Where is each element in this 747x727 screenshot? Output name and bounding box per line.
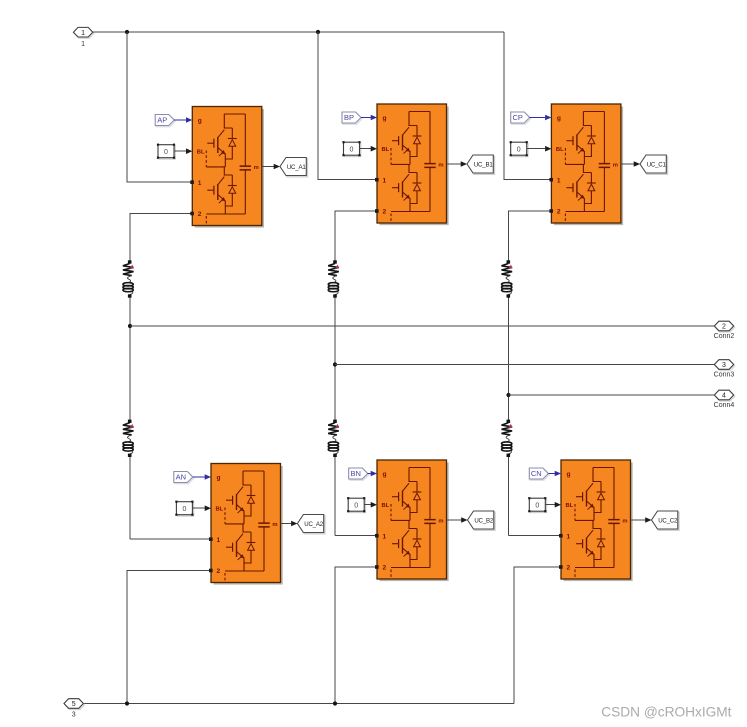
arrowhead into C2 BL xyxy=(555,502,561,508)
From tag BP (gate signal B1) xyxy=(342,112,362,124)
wire top DC bus xyxy=(93,31,504,33)
wire A leg lower vertical xyxy=(129,456,131,539)
svg-text:0: 0 xyxy=(517,146,521,153)
arrowhead into UC_A2 xyxy=(291,521,297,527)
wire phase C output to Conn4 xyxy=(509,394,715,396)
wire 0 to B1 BL xyxy=(360,148,371,150)
half-bridge submodule block A1 xyxy=(190,107,263,227)
From tag AN (gate signal A2) xyxy=(174,472,194,484)
svg-text:g: g xyxy=(217,475,221,482)
arrowhead into A1 BL xyxy=(186,148,192,154)
arrowhead into A2 BL xyxy=(205,505,211,511)
svg-text:1: 1 xyxy=(81,41,85,48)
svg-text:m: m xyxy=(622,519,627,525)
svg-text:3: 3 xyxy=(722,362,726,369)
Goto tag UC_B1 (measurement B1) xyxy=(467,155,495,174)
connection port output Conn2 xyxy=(714,321,735,340)
svg-text:1: 1 xyxy=(383,533,387,540)
svg-text:2: 2 xyxy=(217,568,221,575)
wire B2 m to UC_B2 xyxy=(447,519,462,521)
connection port input 1 (top-left) xyxy=(73,27,93,47)
junction phase C output node xyxy=(506,393,510,397)
wire CP signal to C1 g (navy) xyxy=(530,117,546,119)
constant 0 (BL input B1) xyxy=(342,141,360,156)
half-bridge submodule block B1 xyxy=(375,104,448,224)
wire C2 m to UC_C2 xyxy=(631,519,646,521)
half-bridge submodule block C2 xyxy=(559,460,632,580)
junction top bus / phase A xyxy=(125,30,129,34)
wire to A2 port 1 xyxy=(130,538,211,540)
svg-text:m: m xyxy=(438,519,443,525)
wire top bus down to C1 port 1 xyxy=(504,32,551,180)
junction top bus / phase B xyxy=(316,30,320,34)
arrowhead into B1 BL xyxy=(371,146,377,152)
half-bridge submodule block B2 xyxy=(375,460,448,580)
svg-text:m: m xyxy=(438,163,443,169)
wire phase B output to Conn3 xyxy=(335,364,714,366)
arrowhead into A1 g xyxy=(186,117,192,123)
svg-text:UC_B2: UC_B2 xyxy=(474,518,493,525)
constant 0 (BL input B2) xyxy=(347,497,365,512)
junction bottom bus / phase B xyxy=(333,701,337,705)
wire A2 m to UC_A2 xyxy=(281,523,292,525)
svg-text:UC_C1: UC_C1 xyxy=(647,162,667,169)
series RL branch phase A upper arm xyxy=(123,260,134,297)
wire BN signal to B2 g (navy) xyxy=(368,473,371,475)
svg-text:UC_C2: UC_C2 xyxy=(658,518,678,525)
svg-text:CSDN @cROHxIGMt: CSDN @cROHxIGMt xyxy=(601,705,731,720)
svg-text:2: 2 xyxy=(383,209,387,216)
arrowhead into UC_B2 xyxy=(461,517,467,523)
svg-text:0: 0 xyxy=(164,149,168,156)
wire 0 to A2 BL xyxy=(192,507,204,509)
wire 0 to C2 BL xyxy=(545,504,555,506)
wire phase A output to Conn2 xyxy=(130,325,714,327)
svg-text:BL: BL xyxy=(382,503,390,509)
svg-text:0: 0 xyxy=(182,506,186,513)
Goto tag UC_C2 (measurement C2) xyxy=(652,511,680,530)
svg-text:1: 1 xyxy=(217,537,221,544)
junction bottom bus / phase A xyxy=(125,701,129,705)
svg-text:UC_B1: UC_B1 xyxy=(474,162,493,169)
svg-text:BL: BL xyxy=(566,503,574,509)
half-bridge submodule block C1 xyxy=(549,104,622,224)
svg-text:BP: BP xyxy=(344,113,354,122)
svg-text:0: 0 xyxy=(535,502,539,509)
arrowhead into C2 g xyxy=(555,471,561,477)
svg-text:1: 1 xyxy=(557,177,561,184)
svg-text:g: g xyxy=(557,115,561,122)
half-bridge submodule block A2 xyxy=(209,464,282,584)
arrowhead into B2 g xyxy=(371,471,377,477)
svg-text:CN: CN xyxy=(531,469,542,478)
connection port output Conn4 xyxy=(714,390,735,409)
svg-text:AP: AP xyxy=(157,116,167,125)
svg-text:CP: CP xyxy=(512,113,522,122)
wire A1 port 2 to upper arm inductor xyxy=(130,214,192,263)
arrowhead into UC_A1 xyxy=(274,164,280,170)
svg-text:BL: BL xyxy=(197,150,205,156)
wire to B2 port 1 xyxy=(335,535,377,537)
svg-text:3: 3 xyxy=(72,711,76,718)
svg-text:2: 2 xyxy=(383,565,387,572)
arrowhead into C1 BL xyxy=(545,146,551,152)
series RL branch phase A lower arm xyxy=(123,420,134,457)
series RL branch phase C upper arm xyxy=(502,260,513,297)
Goto tag UC_C1 (measurement C1) xyxy=(640,155,668,174)
series RL branch phase B upper arm xyxy=(328,260,339,297)
wire AN signal to A2 g (navy) xyxy=(193,476,205,478)
wire AP signal to A1 g (navy) xyxy=(174,119,186,121)
svg-text:UC_A2: UC_A2 xyxy=(304,521,323,528)
svg-text:Conn2: Conn2 xyxy=(714,333,735,340)
arrowhead into UC_C1 xyxy=(634,161,640,167)
wire to C2 port 1 xyxy=(509,535,562,537)
svg-text:BN: BN xyxy=(350,469,360,478)
svg-text:5: 5 xyxy=(72,701,76,708)
svg-text:m: m xyxy=(254,165,259,171)
series RL branch phase C lower arm xyxy=(502,420,513,457)
svg-text:BL: BL xyxy=(382,147,390,153)
arrowhead into UC_C2 xyxy=(645,517,651,523)
wire 0 to A1 BL xyxy=(174,150,186,152)
svg-text:0: 0 xyxy=(350,146,354,153)
arrowhead into B2 BL xyxy=(371,502,377,508)
svg-text:2: 2 xyxy=(567,565,571,572)
wire C1 m to UC_C1 xyxy=(621,163,634,165)
svg-text:2: 2 xyxy=(722,324,726,331)
constant 0 (BL input A1) xyxy=(157,144,175,159)
Goto tag UC_A2 (measurement A2) xyxy=(297,515,325,534)
wire A leg mid vertical xyxy=(129,296,131,421)
series RL branch phase B lower arm xyxy=(328,420,339,457)
junction phase B output node xyxy=(333,362,337,366)
From tag BN (gate signal B2) xyxy=(349,468,369,480)
From tag AP (gate signal A1) xyxy=(155,115,175,127)
svg-text:1: 1 xyxy=(383,177,387,184)
wire A2 port 2 down to bottom bus xyxy=(127,571,211,704)
wire C leg mid vertical xyxy=(508,296,510,421)
wire CN signal to C2 g (navy) xyxy=(548,473,555,475)
From tag CP (gate signal C1) xyxy=(511,112,531,124)
wire C2 port 2 down to bottom bus xyxy=(514,567,561,704)
wire C1 port 2 to upper arm inductor xyxy=(509,211,552,262)
svg-text:2: 2 xyxy=(557,209,561,216)
wire 0 to C1 BL xyxy=(527,148,546,150)
svg-text:Conn3: Conn3 xyxy=(714,372,735,379)
wire B1 m to UC_B1 xyxy=(447,163,461,165)
junction phase A output node xyxy=(128,324,132,328)
Goto tag UC_B2 (measurement B2) xyxy=(468,511,496,530)
From tag CN (gate signal C2) xyxy=(529,468,549,480)
wire B leg lower vertical xyxy=(334,456,336,536)
arrowhead into UC_B1 xyxy=(461,161,467,167)
Goto tag UC_A1 (measurement A1) xyxy=(280,158,308,177)
svg-text:g: g xyxy=(383,115,387,122)
wire A1 m to UC_A1 xyxy=(262,166,274,168)
wire B leg mid vertical xyxy=(334,296,336,421)
svg-text:AN: AN xyxy=(176,473,186,482)
svg-text:1: 1 xyxy=(198,180,202,187)
svg-text:g: g xyxy=(198,118,202,125)
arrowhead into C1 g xyxy=(545,115,551,121)
wire top bus down to B1 port 1 xyxy=(318,32,377,180)
svg-text:BL: BL xyxy=(216,507,224,513)
connection port output Conn3 xyxy=(714,360,735,379)
svg-text:g: g xyxy=(567,471,571,478)
svg-text:m: m xyxy=(613,163,618,169)
wire C leg lower vertical xyxy=(508,456,510,536)
svg-text:1: 1 xyxy=(81,30,85,37)
constant 0 (BL input C2) xyxy=(528,497,546,512)
wire top bus down to A1 port 1 xyxy=(127,32,192,182)
arrowhead into B1 g xyxy=(371,115,377,121)
svg-text:UC_A1: UC_A1 xyxy=(287,164,306,171)
svg-text:g: g xyxy=(383,471,387,478)
wire bottom DC bus xyxy=(84,703,514,705)
svg-text:Conn4: Conn4 xyxy=(714,402,735,409)
arrowhead into A2 g xyxy=(205,474,211,480)
svg-text:m: m xyxy=(272,522,277,528)
constant 0 (BL input C1) xyxy=(510,141,528,156)
wire 0 to B2 BL xyxy=(364,504,371,506)
connection port input 3 (bottom-left) xyxy=(64,699,84,719)
svg-text:1: 1 xyxy=(567,533,571,540)
wire B2 port 2 down to bottom bus xyxy=(335,567,377,704)
constant 0 (BL input A2) xyxy=(175,501,193,516)
svg-text:0: 0 xyxy=(354,502,358,509)
wire B1 port 2 to upper arm inductor xyxy=(335,211,377,262)
svg-text:BL: BL xyxy=(556,147,564,153)
svg-text:2: 2 xyxy=(198,211,202,218)
svg-text:4: 4 xyxy=(722,393,726,400)
wire BP signal to B1 g (navy) xyxy=(361,117,371,119)
